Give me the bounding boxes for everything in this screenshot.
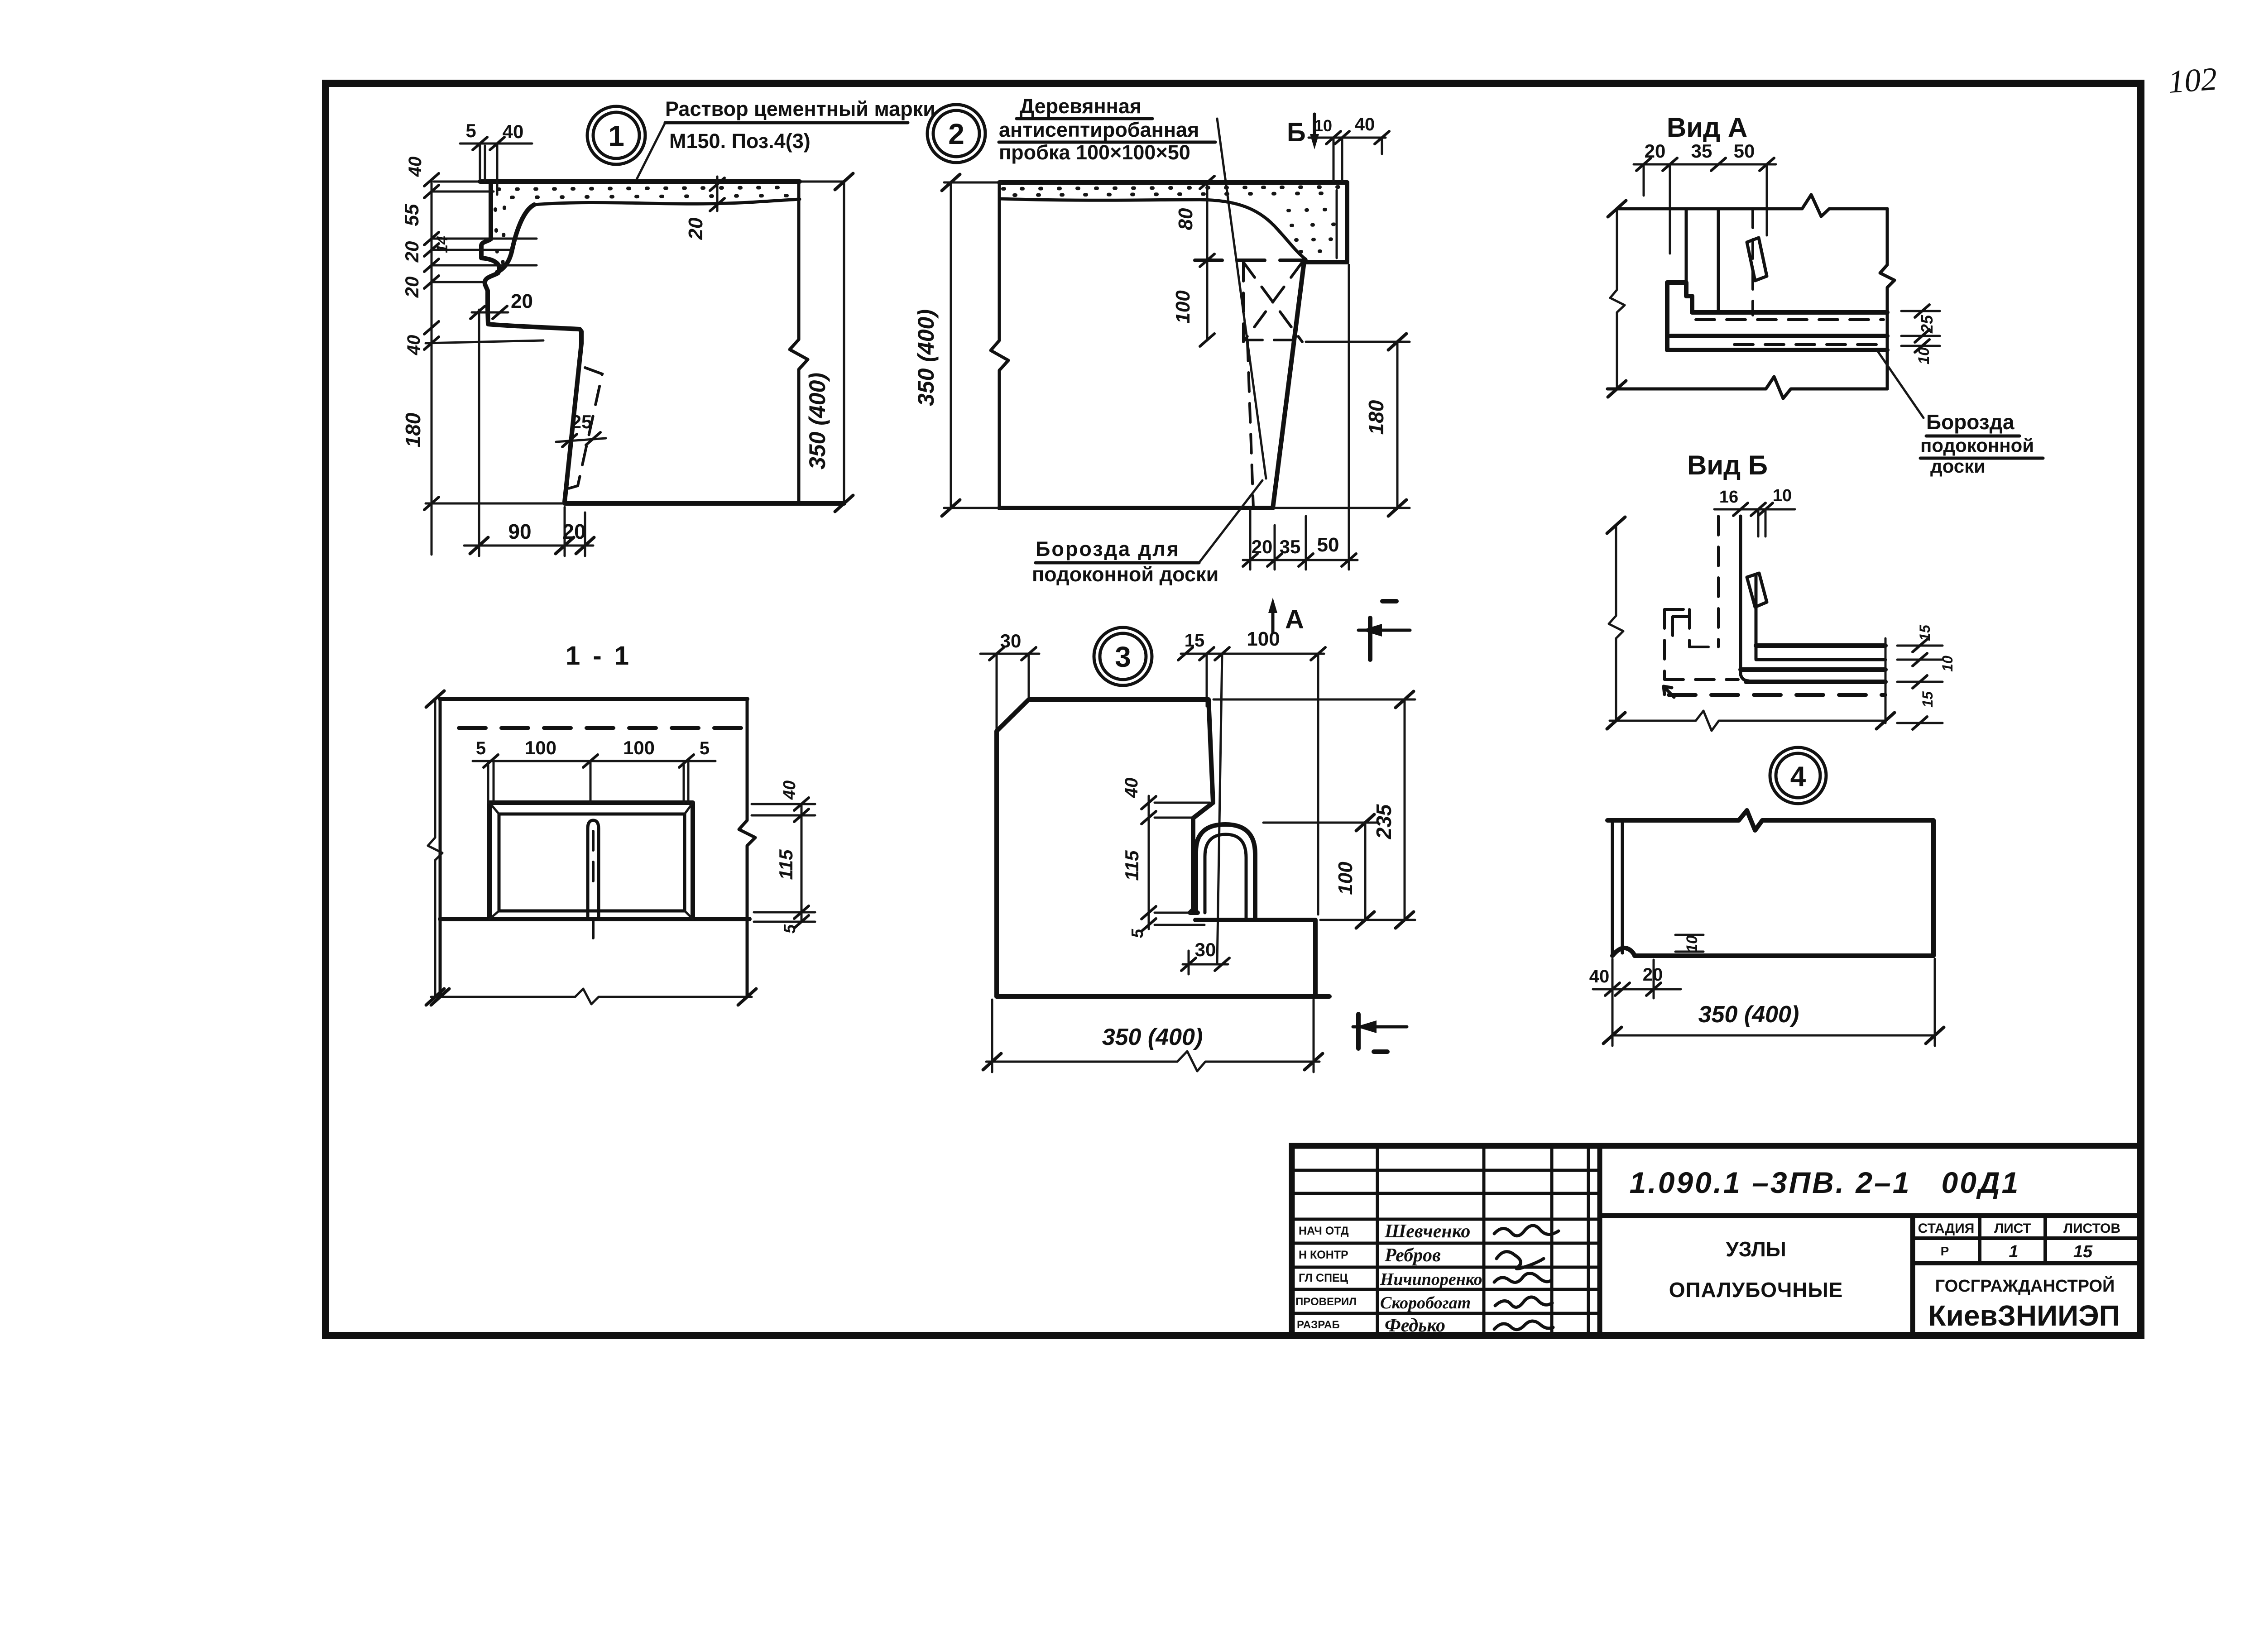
svg-text:доски: доски — [1930, 455, 1986, 477]
svg-text:Б: Б — [1287, 118, 1306, 147]
dashed sill groove (borozda) — [567, 368, 602, 489]
svg-text:20: 20 — [401, 241, 422, 263]
leader from plug note to plug — [1217, 119, 1266, 479]
dim 100 right detail 3 — [1263, 814, 1377, 928]
svg-text:Шевченко: Шевченко — [1384, 1221, 1470, 1242]
svg-text:Борозда: Борозда — [1926, 410, 2015, 434]
title block signature table grid — [1292, 1146, 1600, 1336]
dim 20 mortar thickness — [685, 177, 724, 240]
svg-text:115: 115 — [1121, 850, 1142, 881]
title block main dividers — [1600, 1146, 2140, 1336]
leader to mortar layer — [635, 123, 665, 183]
ceiling bottom line detail 2 — [999, 506, 1273, 510]
mortar wavy bottom detail 2 — [999, 199, 1306, 259]
view A wedge chip — [1747, 238, 1767, 281]
signature table role labels — [1295, 1225, 1357, 1331]
dim 350 (400) detail 4 — [1603, 959, 1944, 1046]
svg-text:4: 4 — [1790, 761, 1806, 792]
svg-text:КиевЗНИИЭП: КиевЗНИИЭП — [1928, 1299, 2120, 1332]
svg-text:35: 35 — [1280, 536, 1301, 557]
svg-text:Деревянная: Деревянная — [1020, 95, 1142, 118]
dims 16 10 view B — [1714, 486, 1795, 536]
svg-text:35: 35 — [1691, 140, 1712, 162]
view A right edge with break — [1880, 209, 1895, 389]
sheet frame border — [326, 83, 2141, 1336]
svg-text:Вид Б: Вид Б — [1687, 450, 1768, 480]
gosgrazhdanstroy KievZNIIEP — [1928, 1275, 2120, 1332]
central slot — [588, 820, 599, 946]
svg-text:115: 115 — [775, 849, 796, 880]
floor thick line — [440, 917, 749, 921]
svg-text:5: 5 — [476, 738, 486, 758]
svg-text:1.090.1 –3ПВ. 2–1 00Д1: 1.090.1 –3ПВ. 2–1 00Д1 — [1630, 1166, 2020, 1199]
svg-text:15: 15 — [1185, 631, 1205, 651]
svg-text:50: 50 — [1734, 140, 1755, 162]
svg-text:20: 20 — [1643, 965, 1663, 985]
slab cut edge with break mark — [790, 182, 808, 503]
view A dashed groove lines — [1696, 320, 1884, 345]
svg-text:350 (400): 350 (400) — [1102, 1024, 1203, 1050]
svg-text:пробка 100×100×50: пробка 100×100×50 — [999, 141, 1190, 164]
svg-text:55: 55 — [401, 204, 423, 226]
view A title — [1667, 112, 1747, 143]
view B title — [1687, 450, 1768, 480]
title block outer box — [1292, 1146, 2140, 1336]
dashed slab edge line — [459, 726, 743, 730]
sheet name YZLY OPALUBOCHNYE — [1669, 1237, 1843, 1302]
formwork frame outer — [489, 803, 693, 919]
svg-text:5: 5 — [1128, 929, 1146, 938]
slab soffit curve into wall — [497, 205, 534, 272]
dims 15 100 top — [1178, 628, 1325, 915]
view B wedge chip — [1747, 573, 1767, 607]
slab cut edge with break detail 2 — [991, 182, 1008, 508]
view A inner verticals — [1686, 209, 1753, 315]
svg-text:30: 30 — [1195, 939, 1216, 960]
dim 350 (400) left — [913, 174, 1002, 516]
detail 2 marker circle — [927, 105, 985, 163]
svg-text:Ребров: Ребров — [1384, 1245, 1441, 1266]
svg-text:10: 10 — [1773, 486, 1792, 505]
dim 90 and 20 bottom — [464, 310, 594, 556]
svg-text:180: 180 — [1364, 400, 1388, 435]
svg-text:10: 10 — [1684, 935, 1701, 953]
svg-text:ПРОВЕРИЛ: ПРОВЕРИЛ — [1295, 1296, 1357, 1308]
svg-text:20: 20 — [562, 520, 585, 543]
svg-text:16: 16 — [1719, 488, 1738, 507]
svg-text:15: 15 — [1919, 691, 1936, 708]
view B bottom dim line — [1607, 711, 1895, 731]
view B right end vertical — [1885, 638, 1887, 723]
svg-text:Раствор цементный марки: Раствор цементный марки — [665, 97, 935, 120]
wall panel profile — [481, 182, 581, 502]
svg-text:РАЗРАБ: РАЗРАБ — [1297, 1319, 1340, 1331]
svg-text:100: 100 — [1247, 628, 1280, 650]
svg-text:100: 100 — [1172, 290, 1194, 324]
svg-text:5: 5 — [465, 120, 476, 141]
svg-text:3: 3 — [1115, 641, 1131, 673]
stadia list listov headers — [1918, 1221, 2120, 1261]
svg-text:М150. Поз.4(3): М150. Поз.4(3) — [669, 129, 811, 153]
svg-text:ЛИСТ: ЛИСТ — [1994, 1221, 2031, 1236]
svg-text:Н КОНТР: Н КОНТР — [1299, 1249, 1348, 1261]
left dimension chain of detail 1 — [401, 157, 565, 555]
svg-text:5: 5 — [700, 738, 710, 758]
svg-text:ЛИСТОВ: ЛИСТОВ — [2063, 1221, 2120, 1236]
note: cement mortar M150 — [665, 97, 935, 153]
detail 3 body outline — [997, 699, 1329, 996]
wall panel rectangle — [440, 699, 755, 997]
svg-text:40: 40 — [1122, 778, 1142, 799]
svg-text:102: 102 — [2167, 61, 2218, 100]
bottom dim line of section — [431, 989, 756, 1005]
svg-text:1 - 1: 1 - 1 — [566, 641, 632, 670]
note: borozda dlya podokonnoy doski — [1032, 537, 1218, 586]
svg-text:Борозда для: Борозда для — [1036, 537, 1180, 560]
svg-text:1: 1 — [608, 120, 624, 152]
view A sill plate outline — [1667, 283, 1887, 350]
svg-text:2: 2 — [948, 118, 964, 150]
svg-text:40: 40 — [503, 121, 524, 142]
svg-text:А: А — [1285, 605, 1304, 634]
mortar layer wavy bottom — [534, 199, 800, 205]
sloped window jamb edge — [1273, 262, 1304, 508]
dim 5 and 40 top — [460, 120, 532, 195]
dim chain 80 / 100 — [1172, 176, 1214, 346]
leader from borozda note to jamb — [1199, 480, 1262, 563]
svg-text:Скоробогат: Скоробогат — [1380, 1293, 1471, 1312]
signature table names — [1380, 1221, 1482, 1336]
svg-text:80: 80 — [1175, 208, 1197, 230]
note borozda podokonnoy doski view A — [1920, 410, 2043, 477]
svg-text:ГЛ СПЕЦ: ГЛ СПЕЦ — [1299, 1272, 1348, 1284]
svg-text:50: 50 — [1317, 534, 1339, 556]
svg-text:100: 100 — [1334, 862, 1357, 895]
svg-text:5: 5 — [780, 924, 799, 934]
dashed jamb line going down — [1247, 342, 1253, 508]
svg-text:180: 180 — [401, 412, 425, 447]
view A left dim line — [1608, 201, 1626, 397]
view B sill board edge lines — [1664, 646, 1885, 697]
svg-text:подоконной доски: подоконной доски — [1032, 563, 1218, 586]
svg-text:Ничипоренко: Ничипоренко — [1380, 1270, 1482, 1289]
view A right dims 25 10 — [1901, 305, 1940, 364]
view B long dashed vertical — [1717, 516, 1720, 647]
view A bottom edge with break — [1607, 377, 1887, 398]
svg-text:40: 40 — [780, 781, 799, 800]
svg-text:антисептиробанная: антисептиробанная — [999, 118, 1199, 141]
svg-text:10: 10 — [1915, 347, 1933, 364]
svg-text:Вид А: Вид А — [1667, 112, 1747, 143]
svg-text:15: 15 — [1917, 624, 1933, 641]
svg-text:20: 20 — [1645, 140, 1666, 162]
right dim chain 40 115 5 — [752, 781, 815, 934]
mortar stipple dots detail 2 — [1003, 187, 1343, 252]
groove arch inner — [1205, 834, 1246, 919]
svg-text:Федько: Федько — [1385, 1315, 1445, 1336]
detail 4 panel outline — [1607, 810, 1933, 956]
svg-text:15: 15 — [2073, 1242, 2093, 1261]
svg-text:СТАДИЯ: СТАДИЯ — [1918, 1221, 1975, 1236]
view B solid verticals — [1741, 516, 1756, 675]
svg-text:100: 100 — [623, 737, 655, 758]
section mark B with arrow — [1287, 114, 1319, 149]
svg-text:ОПАЛУБОЧНЫЕ: ОПАЛУБОЧНЫЕ — [1669, 1278, 1843, 1302]
section cut marker 1 lower — [1353, 1014, 1407, 1052]
slab bottom line — [565, 501, 844, 506]
dashed line under slab seat — [1195, 259, 1306, 262]
svg-text:20: 20 — [1252, 536, 1273, 557]
mortar stipple dots — [495, 187, 795, 276]
detail 3 marker circle — [1094, 627, 1152, 685]
dims 5 100 100 5 — [473, 737, 715, 803]
dim 30 top left — [980, 630, 1039, 730]
detail 1 marker circle — [587, 106, 645, 164]
groove arch outer — [1196, 824, 1255, 919]
svg-text:25: 25 — [571, 411, 592, 432]
section 1-1 title — [566, 641, 632, 670]
svg-text:100: 100 — [525, 737, 556, 758]
svg-text:40: 40 — [1589, 967, 1610, 986]
svg-text:350 (400): 350 (400) — [913, 309, 939, 406]
slab top surface line — [434, 181, 844, 183]
svg-text:1: 1 — [2009, 1242, 2018, 1261]
dim 30 bottom of groove — [1181, 939, 1229, 974]
handwritten page number 102 top right — [2167, 61, 2218, 100]
svg-text:ГОСГРАЖДАНСТРОЙ: ГОСГРАЖДАНСТРОЙ — [1935, 1275, 2115, 1296]
svg-text:25: 25 — [1918, 315, 1936, 334]
svg-text:350 (400): 350 (400) — [805, 373, 830, 469]
view B left dim line — [1607, 517, 1625, 729]
centre axis line of groove — [1217, 654, 1222, 964]
svg-text:40: 40 — [404, 335, 424, 356]
note: wooden antiseptic plug — [999, 95, 1215, 164]
dim 235 right detail 3 — [1214, 691, 1415, 928]
slab right end edge — [1306, 182, 1347, 262]
svg-text:20: 20 — [511, 290, 533, 312]
svg-text:20: 20 — [685, 217, 707, 240]
svg-text:Р: Р — [1941, 1244, 1949, 1258]
svg-text:30: 30 — [1000, 630, 1022, 651]
view B inner dashed step — [1673, 617, 1688, 644]
dims 20 35 50 view A — [1634, 140, 1776, 254]
svg-text:40: 40 — [405, 157, 425, 177]
dim 180 right of detail 2 — [1273, 334, 1410, 516]
view B right dims — [1897, 624, 1956, 729]
svg-text:10: 10 — [1314, 116, 1332, 135]
svg-text:НАЧ ОТД: НАЧ ОТД — [1299, 1225, 1349, 1237]
leader borozda view A — [1878, 351, 1923, 418]
view B dashed outline — [1664, 609, 1738, 680]
slab top line detail 2 — [999, 180, 1347, 185]
svg-text:20: 20 — [401, 277, 422, 298]
dims 40 20 bottom left detail 4 — [1589, 935, 1703, 998]
view A top edge with break — [1617, 195, 1887, 216]
svg-text:10: 10 — [1939, 656, 1956, 672]
svg-text:подоконной: подоконной — [1920, 435, 2034, 456]
section mark A with arrow — [1268, 598, 1304, 634]
wooden plug dashed with cross — [1243, 262, 1302, 342]
detail 4 marker circle — [1770, 747, 1826, 804]
svg-text:235: 235 — [1372, 804, 1396, 839]
dim 350 (400) right — [805, 173, 853, 512]
svg-text:40: 40 — [1355, 115, 1375, 134]
svg-text:90: 90 — [508, 520, 531, 543]
dim 25 on slope — [556, 411, 606, 447]
left dim line of section — [426, 691, 444, 1005]
section cut marker 1 upper — [1358, 601, 1410, 660]
document number — [1630, 1166, 2020, 1199]
dim chain 40 115 5 detail 3 — [1121, 778, 1210, 938]
dims 20 35 50 bottom of detail 2 — [1243, 265, 1357, 570]
dims 10 40 top right of detail 2 — [1309, 115, 1389, 181]
dim 20 wall face step — [470, 290, 533, 319]
svg-text:УЗЛЫ: УЗЛЫ — [1726, 1237, 1786, 1261]
signature scribbles — [1494, 1226, 1559, 1330]
svg-text:350 (400): 350 (400) — [1698, 1001, 1799, 1028]
dim 350 (400) bottom detail 3 — [983, 1000, 1323, 1072]
svg-text:14: 14 — [434, 236, 451, 253]
